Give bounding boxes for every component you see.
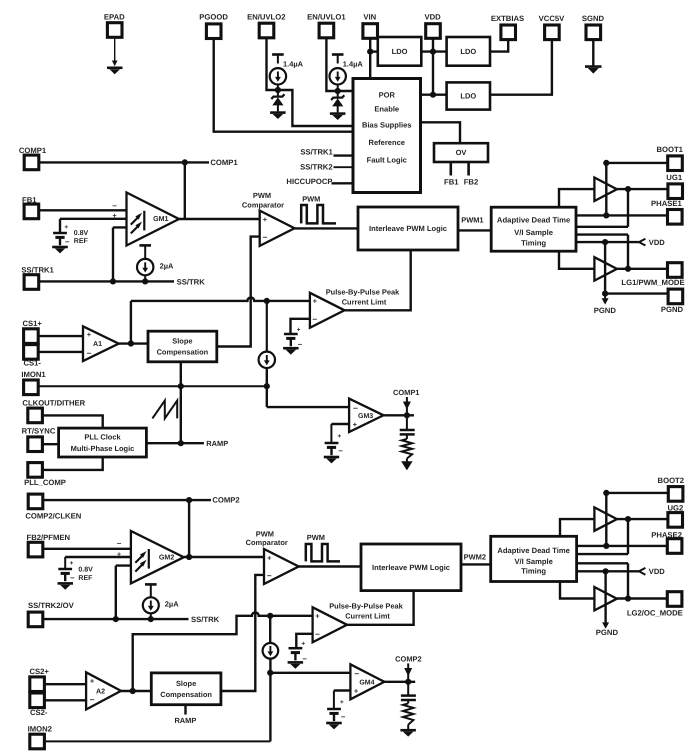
wire VDD rail ch2 [577, 570, 639, 572]
svg-text:Timing: Timing [521, 567, 546, 576]
ground below zener D2 [270, 113, 286, 119]
LDO U2 [447, 37, 490, 66]
junction COMP1 node [182, 159, 188, 165]
wire node to C compensation ch1 [406, 415, 408, 429]
svg-text:PWM: PWM [302, 195, 320, 204]
wire SS/TRK to GM2 third input [116, 564, 139, 566]
pin PGOOD [206, 24, 221, 39]
current sense amp A2 [86, 672, 121, 709]
svg-text:SS/TRK: SS/TRK [191, 615, 220, 624]
svg-text:–: – [315, 629, 320, 639]
wire node to zener D2 [277, 90, 279, 96]
svg-text:SGND: SGND [582, 14, 605, 23]
pin EXTBIAS [501, 25, 516, 40]
transconductance amp GM2 [131, 531, 184, 583]
svg-text:–: – [302, 654, 307, 663]
svg-text:EN/UVLO1: EN/UVLO1 [307, 13, 346, 22]
svg-text:+: + [354, 687, 359, 696]
svg-text:–: – [70, 573, 75, 582]
svg-text:COMP2/CLKEN: COMP2/CLKEN [25, 511, 81, 520]
svg-text:FB2: FB2 [464, 178, 479, 187]
junction VDD driver ch1 [602, 239, 608, 245]
junction offset source ch1 [264, 298, 270, 304]
svg-text:PGND: PGND [661, 305, 684, 314]
junction PHASE1 [603, 212, 609, 218]
svg-text:VIN: VIN [363, 13, 376, 22]
svg-text:LG2/OC_MODE: LG2/OC_MODE [627, 608, 683, 617]
pin VDD [426, 24, 441, 39]
junction VDD-POR-LDO3 [430, 92, 436, 98]
wire SS/TRK2 bus [43, 618, 189, 620]
wire pulse-by-pulse output ch2 [347, 591, 414, 625]
svg-text:+: + [313, 297, 318, 306]
wire VDD down [432, 38, 434, 94]
threshold battery pbp ch1 [284, 326, 303, 348]
junction EN/UVLO2 node [275, 87, 281, 93]
PWM comparator ch1 [260, 211, 295, 246]
wire arrow to node [406, 408, 408, 415]
wire PWM1 [458, 229, 491, 231]
wire 0.8V REF to GM2 plus input [65, 556, 138, 558]
svg-text:RAMP: RAMP [174, 716, 196, 725]
svg-text:HICCUPOCP: HICCUPOCP [286, 177, 332, 186]
wire PGOOD to POR [214, 38, 353, 131]
svg-text:Compensation: Compensation [160, 690, 212, 699]
pin PLL_COMP [28, 463, 43, 478]
svg-text:Slope: Slope [172, 337, 192, 346]
wire current signal bus ch1 [131, 298, 310, 301]
wire resistor to ground ch1 [406, 459, 408, 462]
ground pbp battery ch2 [288, 662, 304, 668]
svg-text:Adaptive Dead Time: Adaptive Dead Time [497, 216, 571, 225]
svg-text:RAMP: RAMP [206, 439, 228, 448]
svg-text:0.8V: 0.8V [74, 230, 89, 237]
svg-text:PWM2: PWM2 [464, 552, 486, 561]
junction LG2 sample [625, 595, 631, 601]
resistor R comp ch1 [402, 439, 412, 459]
svg-text:+: + [340, 699, 344, 706]
wire T-bar to 2uA ch1 [144, 246, 146, 259]
wire offset source drop ch1 [266, 301, 268, 352]
svg-text:V/I Sample: V/I Sample [514, 228, 554, 237]
wire EN/UVLO2 to POR [267, 38, 354, 126]
svg-text:PHASE1: PHASE1 [651, 199, 682, 208]
supply T-bar for 1.4uA source 2 [272, 53, 284, 56]
wire 0.8V REF to GM1 plus input [60, 218, 134, 220]
junction GM4 output node [405, 679, 411, 685]
svg-text:REF: REF [74, 238, 89, 245]
gate driver upper ch2 [594, 507, 617, 530]
threshold battery pbp ch2 [289, 641, 308, 663]
wire BOOT2 to pin [606, 492, 668, 494]
wire GM4 output [384, 681, 415, 683]
wire LDO1 to LDO2 [421, 50, 446, 52]
svg-text:LDO: LDO [460, 47, 476, 56]
ground GM3 reference [324, 457, 339, 463]
ground pbp battery ch1 [283, 348, 299, 354]
wire to GM4 inverting input [270, 672, 350, 674]
svg-text:–: – [117, 538, 122, 547]
svg-text:+: + [87, 330, 92, 339]
LDO U1 [378, 37, 422, 66]
svg-text:–: – [267, 570, 272, 580]
junction 2uA source ch1 [142, 278, 148, 284]
svg-text:VDD: VDD [649, 238, 665, 247]
svg-text:Interleave PWM Logic: Interleave PWM Logic [369, 224, 447, 233]
junction VDD driver ch2 [603, 568, 609, 574]
svg-text:SS/TRK2/OV: SS/TRK2/OV [28, 601, 75, 610]
svg-text:Fault Logic: Fault Logic [367, 155, 407, 164]
wire EXTBIAS to LDO2 [490, 40, 508, 52]
svg-text:EPAD: EPAD [104, 13, 125, 22]
gate driver lower ch2 [594, 587, 617, 610]
wire CS1- to A1 [38, 351, 83, 353]
svg-text:+: + [263, 215, 268, 224]
wire OV stub FB1 [449, 162, 452, 176]
wire REF2 battery lead [64, 557, 66, 569]
wire VIN to LDO1 [370, 50, 378, 52]
junction A2 output [130, 688, 136, 694]
wire IMON2 bus [44, 740, 270, 742]
arrowhead PGND stub ch2 [602, 622, 609, 628]
resistor R comp ch2 [403, 703, 413, 724]
wire CS2- to A2 [44, 699, 86, 701]
svg-text:IMON1: IMON1 [21, 370, 46, 379]
wire node to C compensation ch2 [407, 682, 409, 695]
supply T-bar 2uA ch1 [139, 244, 151, 247]
wire GM1 output to PWM comparator [179, 218, 260, 220]
wire GM3 output [384, 414, 415, 416]
wire IMON1 bus [38, 385, 267, 387]
arrowhead EPAD [112, 61, 118, 67]
wire VCC5V to LDO3 [490, 40, 552, 95]
svg-text:GM1: GM1 [153, 215, 168, 223]
pin VCC5V [545, 25, 560, 40]
pin CS2- [30, 693, 45, 708]
wire T-bar to current source 1 [337, 55, 339, 64]
svg-text:CS2+: CS2+ [29, 667, 49, 676]
transconductance amp GM1 [127, 193, 180, 246]
wire A2 output to slope comp ch2 [121, 690, 151, 692]
pin CS1+ [24, 329, 39, 344]
pin UG1 [668, 184, 683, 199]
wire to GM3 inverting input [267, 406, 349, 408]
waveform PWM ch1 [301, 195, 336, 224]
wire UG2 [617, 518, 668, 520]
gate driver upper ch1 [594, 178, 617, 202]
wire GM3 plus to battery [330, 424, 332, 442]
wire slope comp output to PWM comparator minus ch2 [221, 575, 264, 691]
svg-text:FB2/PFMEN: FB2/PFMEN [27, 533, 71, 542]
svg-text:–: – [112, 201, 117, 210]
wire pbp minus to battery ch1 [291, 319, 310, 334]
junction A1 output [128, 340, 134, 346]
wire PGND stub ch1 [604, 294, 606, 299]
Slope Compensation block ch2 [151, 673, 221, 705]
wire POR to OV block [421, 122, 461, 143]
svg-text:CS1-: CS1- [23, 359, 41, 368]
svg-text:VDD: VDD [649, 567, 665, 576]
svg-text:A2: A2 [96, 687, 105, 695]
wire PWM comparator output to interleave ch2 [299, 565, 361, 567]
svg-text:Pulse-By-Pulse Peak: Pulse-By-Pulse Peak [326, 287, 400, 296]
supply T-bar for 1.4uA source 1 [332, 53, 344, 56]
wire adaptive to lower driver ch1 [559, 251, 594, 269]
svg-text:Comparator: Comparator [246, 538, 288, 547]
wire VIN down to POR top [369, 38, 371, 78]
svg-text:+: + [353, 420, 358, 429]
svg-text:Timing: Timing [521, 238, 546, 247]
svg-text:–: – [90, 694, 95, 704]
pin BOOT1 [668, 156, 683, 171]
wire A1 output riser [130, 301, 132, 344]
pin IMON2 [30, 734, 45, 749]
voltage reference 0.8V ch2 [58, 560, 75, 582]
pin LG1/PWM_MODE [668, 263, 683, 278]
svg-text:–: – [263, 231, 268, 241]
wire HICCUPOCP stub [332, 182, 354, 184]
pin PHASE2 [667, 539, 682, 554]
svg-text:–: – [338, 446, 343, 455]
svg-text:+: + [90, 676, 95, 685]
wire COMP2 to net [43, 499, 211, 501]
svg-text:1.4µA: 1.4µA [343, 60, 364, 69]
voltage reference GM3 [325, 433, 344, 455]
svg-text:GM2: GM2 [159, 554, 174, 562]
junction UG1 sample [625, 186, 631, 192]
arrowhead COMP2 to node [404, 668, 412, 676]
wire PGND line ch1 [605, 292, 668, 294]
ground below zener D1 [330, 114, 346, 120]
ground RC ch2 [400, 730, 416, 736]
svg-text:Current Limt: Current Limt [345, 612, 390, 621]
Adaptive Dead Time V/I Sample Timing block ch2 [491, 536, 577, 581]
wire VDD through driver to PGND ch1 [604, 242, 606, 294]
wire cap to resistor ch1 [406, 435, 408, 439]
wire COMP1 riser to GM1 output [184, 162, 186, 219]
svg-text:FB1: FB1 [444, 178, 459, 187]
arrowhead PGND stub ch1 [602, 298, 609, 304]
ground EPAD [107, 68, 123, 74]
PWM comparator ch2 [264, 549, 299, 584]
wire T-bar to current source 2 [277, 55, 279, 64]
pin FB1 [24, 204, 39, 219]
wire CS2+ to A2 [44, 683, 86, 685]
pulse-by-pulse comparator ch2 [313, 607, 347, 642]
pin EN/UVLO1 [319, 23, 334, 38]
svg-text:OV: OV [456, 148, 467, 157]
wire zener D2 to ground [277, 105, 279, 112]
wire offset source drop ch2 [269, 616, 271, 644]
junction offset source ch2 [267, 613, 273, 619]
wire SS/TRK1 bus [39, 280, 175, 282]
svg-text:RT/SYNC: RT/SYNC [22, 427, 56, 436]
svg-text:BOOT2: BOOT2 [658, 476, 684, 485]
svg-text:+: + [267, 553, 272, 562]
svg-text:Pulse-By-Pulse Peak: Pulse-By-Pulse Peak [329, 602, 403, 611]
wire 2uA ch2 to SS bus [150, 613, 152, 619]
waveform sawtooth ramp [152, 401, 177, 419]
pin EPAD [107, 23, 122, 38]
svg-text:EN/UVLO2: EN/UVLO2 [247, 13, 285, 22]
svg-text:Bias Supplies: Bias Supplies [362, 120, 412, 129]
wire COMP1 to net [39, 161, 209, 163]
capacitor C comp ch1 [400, 430, 415, 434]
pin PGND [668, 289, 683, 304]
pin RT/SYNC [28, 437, 43, 452]
ground RC ch1 [401, 461, 412, 470]
current source 2uA ch1 [137, 259, 174, 275]
wire LG sample ch2 [577, 563, 628, 598]
svg-text:LDO: LDO [392, 47, 408, 56]
offset current source ch2 [263, 643, 279, 659]
wire CS1+ to A1 [38, 335, 83, 337]
svg-text:Adaptive Dead Time: Adaptive Dead Time [497, 546, 569, 555]
wire adaptive to upper driver ch2 [560, 519, 594, 536]
pin SS/TRK1 [24, 275, 39, 290]
wire BOOT1 to pin [606, 162, 668, 164]
svg-text:EXTBIAS: EXTBIAS [491, 14, 524, 23]
arrowhead COMP1 to node [403, 402, 411, 410]
wire offset source to IMON1 node [266, 368, 268, 407]
svg-text:Enable: Enable [374, 105, 399, 114]
junction UG2 sample [625, 516, 631, 522]
wire cap to resistor ch2 [407, 700, 409, 703]
pin EN/UVLO2 [259, 23, 274, 38]
wire UG sample ch1 [576, 189, 628, 227]
wire BOOT2 rail [605, 493, 607, 546]
wire pulse-by-pulse output ch1 [345, 250, 411, 310]
wire GM3 plus input [331, 423, 349, 425]
wire OV stub FB2 [467, 162, 470, 176]
wire COMP2 arrow lead [407, 663, 409, 668]
Slope Compensation block ch1 [148, 331, 217, 362]
wire COMP1 arrow lead [406, 397, 408, 402]
svg-text:VCC5V: VCC5V [539, 14, 566, 23]
junction slope-IMON1 [178, 383, 184, 389]
junction COMP2 node [186, 497, 192, 503]
svg-text:PWM: PWM [307, 533, 325, 542]
pin COMP1 [24, 155, 39, 170]
junction BOOT1 [603, 160, 609, 166]
wire PWM comparator output to interleave logic [295, 227, 359, 229]
junction BOOT2 [603, 490, 609, 496]
svg-text:PWM1: PWM1 [461, 215, 483, 224]
current source I1 1.4uA [270, 60, 304, 85]
current source 2uA ch2 [143, 597, 179, 613]
svg-text:GM3: GM3 [358, 413, 373, 420]
svg-text:1.4µA: 1.4µA [283, 60, 304, 69]
wire EPAD to ground [114, 37, 116, 62]
svg-text:PGND: PGND [596, 628, 619, 637]
svg-text:Comparator: Comparator [242, 201, 284, 210]
svg-text:PGOOD: PGOOD [199, 13, 228, 22]
wire 2uA ch1 to SS bus [144, 275, 146, 281]
wire A1 output to slope comp [119, 342, 148, 344]
wire CLKOUT to PLL [42, 415, 102, 428]
wire GM4 plus input [334, 689, 351, 691]
svg-text:SS/TRK1: SS/TRK1 [300, 147, 333, 156]
pin LG2/OC_MODE [667, 592, 682, 607]
svg-text:LDO: LDO [460, 92, 476, 101]
ground SGND [585, 67, 602, 74]
svg-text:–: – [354, 668, 359, 678]
svg-text:PGND: PGND [594, 306, 617, 315]
junction GM2 output [186, 554, 192, 560]
voltage reference GM4 [327, 699, 346, 721]
junction EN/UVLO1 node [335, 88, 341, 94]
svg-text:VDD: VDD [424, 13, 441, 22]
OV comparator block [434, 143, 488, 162]
svg-text:CS1+: CS1+ [22, 319, 42, 328]
svg-text:–: – [65, 237, 70, 246]
svg-text:COMP1: COMP1 [210, 158, 238, 167]
wire SS/TRK1 stub [334, 154, 354, 156]
wire EN/UVLO1 to POR [326, 38, 353, 91]
wire GM4 plus to battery [333, 691, 335, 709]
svg-text:SS/TRK2: SS/TRK2 [300, 162, 332, 171]
svg-text:+: + [64, 224, 68, 231]
wire SGND to ground [592, 40, 594, 66]
wire LG2 output [617, 597, 668, 599]
svg-text:UG1: UG1 [666, 173, 683, 182]
wire PLL_COMP to PLL [42, 457, 102, 470]
wire RAMP stub ch2 [184, 705, 186, 715]
junction VIN-LDO1 [367, 49, 373, 55]
junction LG1 sample [625, 266, 631, 272]
current sense amp A1 [83, 326, 119, 361]
svg-text:REF: REF [78, 575, 93, 582]
svg-text:Slope: Slope [176, 679, 196, 688]
svg-text:COMP2: COMP2 [212, 496, 239, 505]
pin PHASE1 [668, 210, 683, 225]
svg-text:2µA: 2µA [160, 261, 174, 270]
svg-text:PWM: PWM [253, 191, 271, 200]
wire REF1 battery lead [59, 219, 61, 233]
svg-text:PLL_COMP: PLL_COMP [24, 478, 66, 487]
wire current source 1 to node [337, 85, 339, 92]
svg-text:–: – [87, 347, 92, 357]
ground REF2 [58, 583, 74, 589]
wire A2 net bus ch2 [133, 612, 313, 691]
junction IMON1 node [264, 383, 270, 389]
wire pbp minus to battery ch2 [296, 634, 312, 648]
pin CS2+ [30, 677, 45, 692]
voltage reference 0.8V ch1 [53, 224, 70, 246]
svg-text:PLL Clock: PLL Clock [84, 433, 121, 442]
svg-text:A1: A1 [93, 340, 102, 348]
wire SS/TRK2 stub [334, 166, 354, 168]
svg-text:+: + [297, 326, 301, 333]
pin BOOT2 [668, 487, 683, 502]
pin COMP2/CLKEN [28, 494, 43, 509]
svg-text:LG1/PWM_MODE: LG1/PWM_MODE [621, 278, 684, 287]
ground REF1 [52, 247, 68, 253]
wire PHASE1 [576, 214, 668, 216]
wire node to zener D1 [337, 91, 339, 97]
gate driver lower ch1 [594, 257, 617, 280]
offset current source ch1 [259, 352, 275, 368]
wire zener D1 to ground [337, 106, 339, 113]
svg-text:Reference: Reference [369, 138, 406, 147]
svg-text:IMON2: IMON2 [28, 725, 52, 734]
arrowhead VDD ch1 [639, 239, 645, 246]
waveform PWM ch2 [306, 533, 340, 561]
svg-text:V/I Sample: V/I Sample [514, 557, 552, 566]
svg-text:2µA: 2µA [165, 600, 179, 609]
transconductance amp GM3 [349, 399, 383, 432]
pin IMON1 [24, 380, 39, 395]
